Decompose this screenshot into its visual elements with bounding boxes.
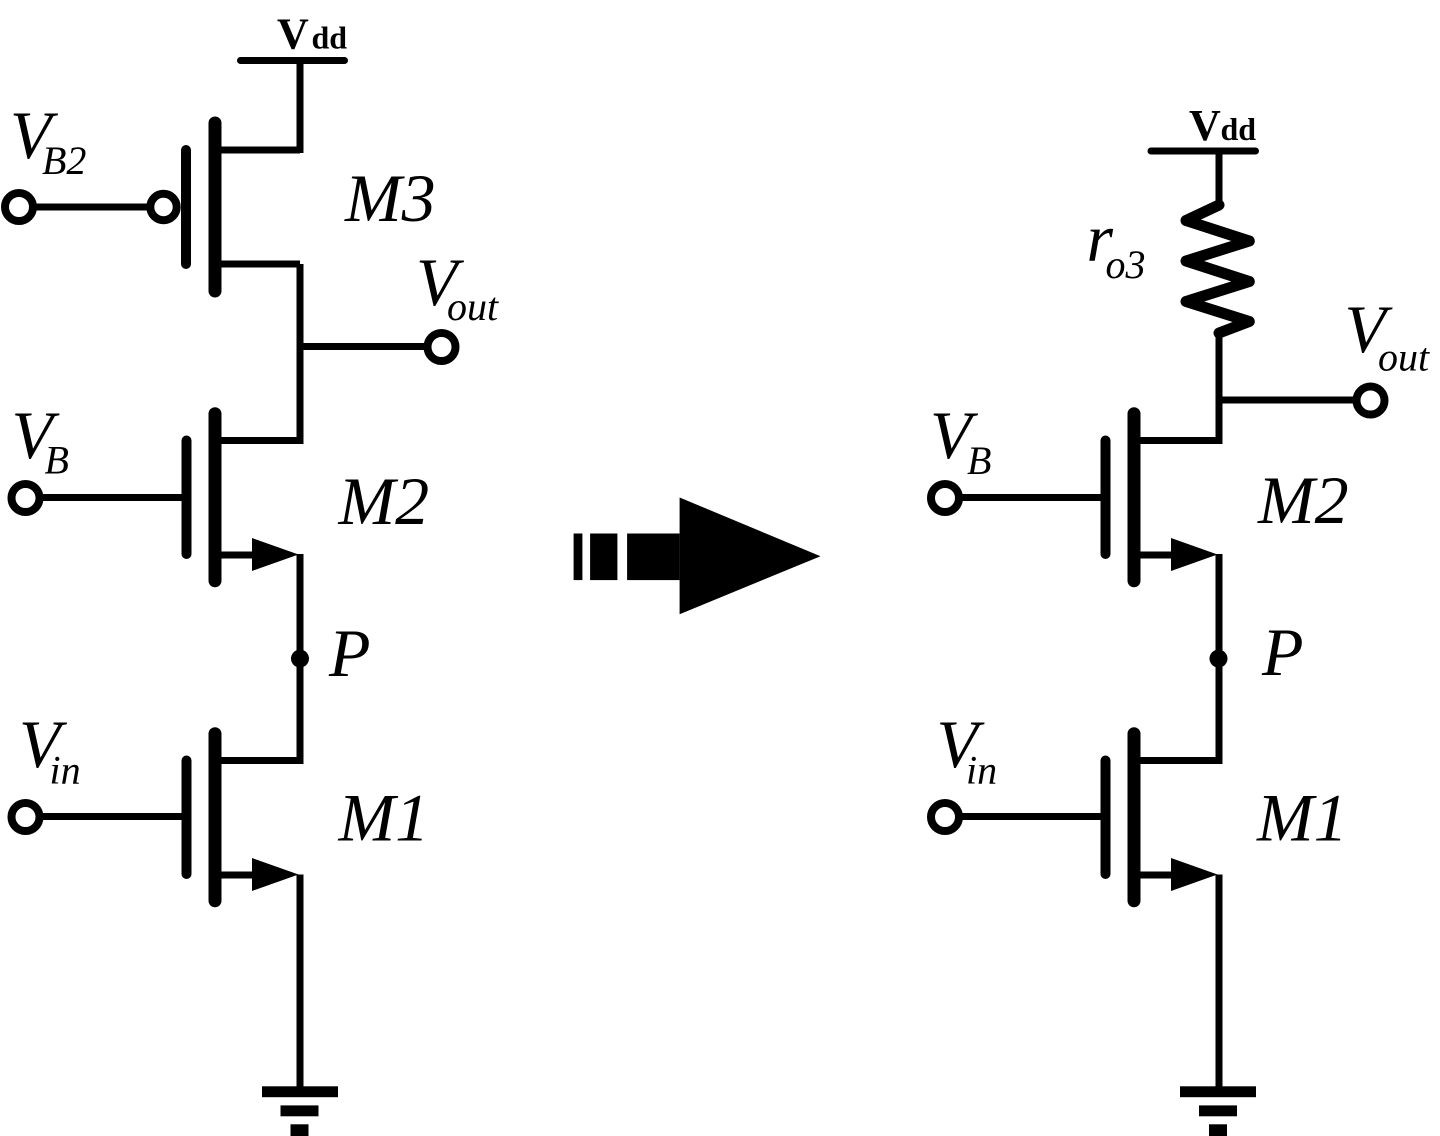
terminal Vout (right): [1357, 387, 1385, 415]
svg-text:B: B: [45, 438, 69, 483]
wire Vout tap (left): [300, 343, 424, 350]
svg-text:out: out: [1378, 335, 1430, 380]
block arrow (transformation): [574, 498, 821, 615]
svg-text:in: in: [966, 748, 997, 793]
wire M1 source to ground (left): [297, 875, 304, 1089]
transistor M1 (NMOS, left): [187, 734, 301, 901]
resistor ro3: [1186, 205, 1249, 333]
svg-text:M2: M2: [1257, 462, 1349, 538]
terminal VB (left): [12, 484, 40, 512]
power rail Vdd (left): [241, 57, 345, 64]
wire resistor to M2 drain (right): [1216, 330, 1223, 444]
wire Vout tap (right): [1219, 397, 1353, 404]
wire VB to M2 gate (left): [43, 494, 183, 501]
svg-text:B: B: [967, 438, 991, 483]
svg-text:in: in: [50, 748, 81, 793]
power rail Vdd (right): [1151, 148, 1256, 155]
svg-text:B2: B2: [42, 138, 86, 183]
node P (right): [1210, 650, 1228, 668]
terminal VB2: [5, 193, 33, 221]
terminal VB (right): [931, 484, 959, 512]
svg-text:P: P: [1261, 614, 1304, 690]
node P (left): [291, 650, 309, 668]
terminal Vout (left): [428, 333, 456, 361]
svg-text:M1: M1: [1256, 780, 1348, 856]
transistor M3 (PMOS): [150, 123, 300, 291]
wire VB2 to M3 gate: [36, 204, 150, 211]
transistor M1 (NMOS, right): [1106, 734, 1220, 901]
wire Vin to M1 gate (right): [962, 813, 1102, 820]
svg-text:o3: o3: [1106, 242, 1146, 287]
wire M3 drain to M2 drain: [297, 264, 304, 444]
wire Vdd rail to M3 source: [297, 61, 304, 154]
transistor M2 (NMOS, left): [187, 414, 301, 581]
wire VB to M2 gate (right): [962, 494, 1102, 501]
svg-text:M2: M2: [338, 463, 430, 539]
terminal Vin (right): [931, 803, 959, 831]
ground (right): [1180, 1086, 1256, 1136]
svg-text:M1: M1: [338, 780, 430, 856]
svg-text:M3: M3: [344, 160, 436, 236]
ground (left): [262, 1086, 338, 1136]
wire M2 source to M1 drain (right): [1216, 554, 1223, 764]
svg-text:P: P: [328, 615, 371, 691]
transistor M2 (NMOS, right): [1106, 414, 1220, 581]
wire Vin to M1 gate (left): [43, 813, 183, 820]
wire M2 source to M1 drain (left): [297, 554, 304, 764]
wire M1 source to ground (right): [1216, 875, 1223, 1089]
terminal Vin (left): [12, 803, 40, 831]
wire Vdd rail to resistor: [1216, 151, 1223, 208]
svg-text:out: out: [447, 284, 499, 329]
